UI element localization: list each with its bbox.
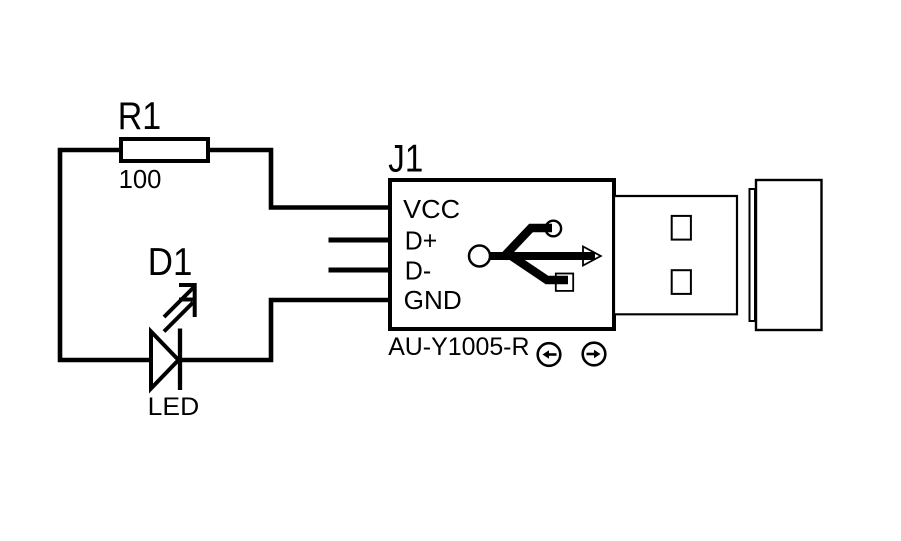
wire: D- stub — [329, 268, 392, 273]
USB plug body — [756, 180, 822, 330]
svg-text:R1: R1 — [118, 95, 161, 138]
LED D1: diode triangle — [151, 332, 179, 389]
resistor R1 — [121, 139, 208, 161]
LED D1: emission arrow 2 head horizontal bar — [179, 298, 195, 302]
USB trident symbol: upper branch — [503, 228, 552, 258]
svg-text:J1: J1 — [388, 138, 423, 181]
USB shell contact window upper — [672, 216, 691, 240]
svg-text:D+: D+ — [405, 227, 437, 255]
svg-text:D1: D1 — [148, 241, 193, 284]
orientation mark: circled right arrow — [583, 343, 606, 366]
USB trident symbol: lower branch — [512, 257, 568, 281]
svg-text:AU-Y1005-R: AU-Y1005-R — [388, 333, 529, 361]
LED D1: emission arrow 1 head vertical bar — [193, 283, 197, 300]
orientation mark: circled left arrow — [538, 343, 561, 366]
USB trident symbol: big circle terminal — [469, 246, 490, 267]
svg-text:LED: LED — [148, 393, 200, 421]
LED D1: emission arrow 1 head horizontal bar — [179, 283, 197, 287]
svg-text:VCC: VCC — [403, 196, 460, 224]
USB trident symbol: square terminal — [556, 274, 573, 291]
USB plug metal shell — [614, 196, 737, 314]
LED D1: emission arrow 2 head vertical bar — [193, 300, 197, 317]
wire: resistor right pin to VCC pin of J1 — [206, 150, 391, 208]
USB trident symbol: arrowhead outline — [583, 247, 601, 266]
LED D1: emission arrow 2 shaft — [164, 303, 193, 332]
USB trident symbol: ring terminal — [546, 221, 562, 237]
USB trident symbol: main shaft — [480, 252, 595, 260]
wire: left loop from resistor left pin down rail, along bottom through LED, up to GND pin — [60, 150, 391, 360]
USB shell contact window lower — [672, 270, 691, 294]
LED D1: cathode bar — [178, 329, 182, 391]
svg-text:D-: D- — [405, 257, 431, 285]
wire: D+ stub — [329, 238, 392, 243]
USB plug collar bar — [750, 189, 756, 321]
connector J1 body — [390, 180, 614, 329]
LED D1: emission arrow 1 shaft — [164, 286, 195, 317]
svg-text:GND: GND — [404, 287, 462, 315]
svg-text:100: 100 — [119, 166, 162, 194]
